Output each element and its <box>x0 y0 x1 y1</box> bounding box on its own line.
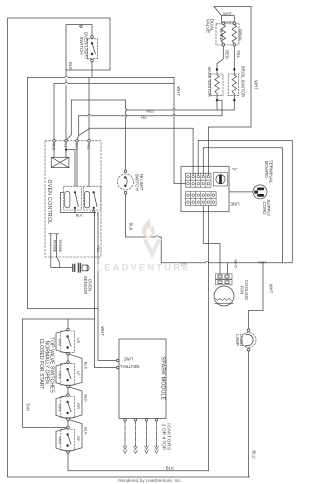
svg-text:TAN: TAN <box>58 371 63 379</box>
wire main loop (left/bottom/top L1 loop) <box>8 18 250 477</box>
wire link RR to RF <box>67 421 69 427</box>
svg-text:BLK: BLK <box>83 362 88 370</box>
wire BLK staircase LR <box>69 354 82 386</box>
wire NEUTRAL drop x=94.5 <box>95 212 117 368</box>
svg-text:“N”: “N” <box>232 168 238 172</box>
wire oven control terminal drops <box>54 78 89 140</box>
svg-text:YEL: YEL <box>96 245 100 252</box>
label OVEN LIGHT SWITCH <box>79 32 89 60</box>
switch LF <box>61 361 75 388</box>
svg-text:BLU: BLU <box>252 450 257 458</box>
wire H_D y=132 from WHT main <box>208 127 251 175</box>
wire lamp down to bottom loop <box>248 351 250 477</box>
svg-text:Rendered by LeadVenture, Inc.: Rendered by LeadVenture, Inc. <box>118 478 182 483</box>
svg-text:BAKE IGNITOR: BAKE IGNITOR <box>207 67 212 97</box>
wire bracket (TAN bypass) LF <box>56 363 67 386</box>
svg-text:WHT: WHT <box>253 80 258 90</box>
svg-text:TAN: TAN <box>26 403 31 411</box>
svg-text:SPARK MODULE: SPARK MODULE <box>160 357 166 401</box>
motor COOLING FAN connector <box>216 274 233 285</box>
wire relay bottoms <box>61 192 98 216</box>
svg-text:LEADVENTURE: LEADVENTURE <box>96 263 190 273</box>
wire RF to bottom BLK run <box>68 453 208 471</box>
wire BLK staircase RR <box>69 420 82 452</box>
plug SUPPLY CORD <box>253 185 267 199</box>
svg-text:RED: RED <box>147 109 155 113</box>
svg-text:BLK: BLK <box>68 62 73 70</box>
svg-text:RED: RED <box>51 143 55 151</box>
junction dot <box>65 149 67 151</box>
wire terminal drop x=203.5 and fan run <box>161 206 282 329</box>
sensor wires <box>51 257 72 268</box>
svg-text:LF: LF <box>76 371 81 376</box>
svg-text:YEL: YEL <box>86 143 90 150</box>
wire H2 y=83.5 <box>54 83 174 85</box>
svg-text:RR: RR <box>76 403 81 409</box>
wire NEUTRAL run y=319 <box>23 318 95 320</box>
svg-text:FAN: FAN <box>239 286 244 295</box>
wire H1 y=77.5 <box>28 77 175 79</box>
svg-text:RF: RF <box>76 436 81 442</box>
wire H5 left corner to circle3 with diag branch to H_C <box>77 116 90 140</box>
wire terminal drop x=207.5 <box>207 206 209 471</box>
svg-text:2 OR 4 TOP: 2 OR 4 TOP <box>160 424 166 450</box>
wire X box feeds <box>54 142 89 186</box>
svg-text:WHT: WHT <box>268 284 273 294</box>
terminal LINE <box>116 359 119 362</box>
connector bump y237 <box>155 236 159 237</box>
terminal circles valve bottom <box>222 43 225 46</box>
switches LR LF RR RF drawn by group <box>56 328 88 453</box>
wire BLK staircase LF <box>69 387 82 419</box>
wire x=66 drop (from oven light loop to oven control) <box>65 70 67 140</box>
coil BROIL (zigzag) <box>232 25 236 44</box>
svg-text:BOARD: BOARD <box>264 161 269 178</box>
wire spark module feed x=161.5 <box>160 237 162 263</box>
wire H_C y=129 to terminal <box>90 128 193 175</box>
hop on H2 at x=66.5 <box>65 82 69 83</box>
svg-text:PROBE: PROBE <box>52 240 56 253</box>
wire hi-limit vertical x=125.5 <box>125 100 127 170</box>
svg-text:TAN: TAN <box>58 338 63 346</box>
hop on H5 at x=89.3 <box>88 114 92 115</box>
svg-text:BROIL: BROIL <box>238 29 243 42</box>
terminal circles valve top <box>222 22 225 25</box>
svg-text:LINE: LINE <box>123 357 133 362</box>
coil BAKE (zigzag) <box>221 25 225 44</box>
svg-text:SENSOR: SENSOR <box>83 276 88 295</box>
hop on H5 at x=174 <box>172 114 176 115</box>
terminal block group2 (6x2 with circles) <box>186 192 217 206</box>
watermark leadventure <box>96 218 190 273</box>
switch OVEN LIGHT SWITCH <box>88 36 98 62</box>
hop on hi-limit vertical at H4 <box>126 108 127 112</box>
wire LINE drop x=98 <box>98 212 117 361</box>
wire TAN rail <box>23 319 67 427</box>
wire LR feed <box>67 319 69 328</box>
oven light switch loop wires <box>66 25 92 78</box>
svg-text:LINE: LINE <box>230 202 240 207</box>
svg-text:WHT: WHT <box>233 259 237 268</box>
svg-text:WHT: WHT <box>176 86 181 96</box>
svg-text:RED: RED <box>225 50 230 59</box>
hop on H1 at x=66.5 <box>65 76 69 77</box>
hop on H4 at x=174 <box>172 109 176 110</box>
hop on hi-limit vertical at H5 <box>126 114 127 118</box>
wire bracket (TAN bypass) RR <box>56 396 67 419</box>
switch HI LIMIT SWITCH <box>118 170 134 194</box>
switch RR <box>61 394 75 421</box>
wire hi-limit to junction y=237 <box>126 194 162 237</box>
svg-text:TAN: TAN <box>58 436 63 444</box>
svg-text:YEL: YEL <box>141 116 148 120</box>
supply cord top funnel wires <box>214 6 251 15</box>
transformer (X box) <box>51 157 69 167</box>
terminal block group1 (5x2 with circles) <box>186 173 212 187</box>
svg-text:YEL: YEL <box>236 50 241 59</box>
wire H3 y=100 with corner diag to circle2 <box>67 100 126 140</box>
relay 1 <box>64 186 82 210</box>
connector bump y262.7 <box>205 261 209 262</box>
svg-text:BLK: BLK <box>83 394 88 402</box>
motor COOLING FAN <box>214 286 234 306</box>
svg-text:SWITCH: SWITCH <box>79 36 84 54</box>
svg-text:CLOSED FOR START: CLOSED FOR START <box>38 339 44 390</box>
resistor BAKE IGNITOR <box>211 70 223 111</box>
lamp OVEN LAMP <box>241 329 256 351</box>
wire RED (bake valve to ignitor) <box>217 46 223 70</box>
svg-text:L1: L1 <box>63 144 67 148</box>
svg-text:VALVE: VALVE <box>204 19 210 34</box>
svg-text:BLK: BLK <box>83 427 88 435</box>
resistor BROIL IGNITOR <box>228 70 239 111</box>
svg-text:OVEN CONTROL: OVEN CONTROL <box>46 180 52 225</box>
wire bracket (TAN bypass) LR <box>56 330 67 353</box>
wire H4 y=110 <box>126 109 234 111</box>
svg-text:LR: LR <box>76 338 81 343</box>
svg-text:TAN: TAN <box>58 403 63 411</box>
svg-text:WHT: WHT <box>223 11 233 16</box>
svg-text:BLK: BLK <box>76 213 83 217</box>
svg-text:BROIL IGNITOR: BROIL IGNITOR <box>241 66 246 97</box>
wire link LF to RR <box>67 388 69 394</box>
connector block valve <box>222 16 235 22</box>
wire H_E y=140 supply <box>198 141 292 263</box>
wire H_F y=146 supply <box>203 148 282 263</box>
svg-text:BAKE: BAKE <box>219 29 224 40</box>
relay2 output circle <box>93 210 95 212</box>
relay 2 <box>83 186 101 210</box>
wire link LR to LF <box>67 355 69 361</box>
terminal NEUTRAL <box>116 366 119 369</box>
svg-text:IGNITORS: IGNITORS <box>166 423 172 451</box>
svg-text:LAMP: LAMP <box>235 334 240 346</box>
wire left vertical x=27.5 to spark line run <box>28 78 99 309</box>
dual valve dashed box <box>216 24 239 45</box>
svg-text:BLK: BLK <box>166 465 174 470</box>
box OVEN CONTROL (dashed) <box>45 141 101 257</box>
terminals oven control <box>53 140 56 143</box>
svg-text:SWITCH: SWITCH <box>135 173 140 190</box>
wire bracket (TAN bypass) RF <box>56 428 67 451</box>
switch LR <box>61 328 75 355</box>
svg-text:PROBE: PROBE <box>58 240 62 253</box>
switch RF <box>61 426 75 453</box>
wire x=174 drop to terminal board <box>174 78 186 184</box>
svg-text:WHT: WHT <box>100 326 105 336</box>
wire board to plug <box>230 191 253 193</box>
sensor OVEN SENSOR <box>73 264 89 273</box>
junction dots ignitor tops <box>216 68 218 70</box>
fuse holder on terminal board <box>214 173 228 187</box>
wire YEL (broil valve to ignitor) <box>233 46 235 70</box>
box TERMINAL BOARD <box>181 166 229 211</box>
connector on oven light loop top <box>80 25 82 27</box>
spark module igniter outputs <box>123 419 158 454</box>
svg-text:BLK: BLK <box>129 223 134 231</box>
wire WHT main vertical x=251 <box>250 6 252 127</box>
svg-text:CORD: CORD <box>262 202 267 215</box>
wire H5 y=115.7 <box>79 115 222 117</box>
probe jack wires <box>49 234 58 257</box>
label TOP VALVE SWITCHES NORMALLY OPEN CLOSED FOR START <box>38 337 54 393</box>
wire bake parallel stub <box>217 100 222 116</box>
svg-text:WHT: WHT <box>259 261 267 265</box>
svg-text:NEUTRAL: NEUTRAL <box>119 364 139 369</box>
box SPARK MODULE <box>119 339 166 419</box>
